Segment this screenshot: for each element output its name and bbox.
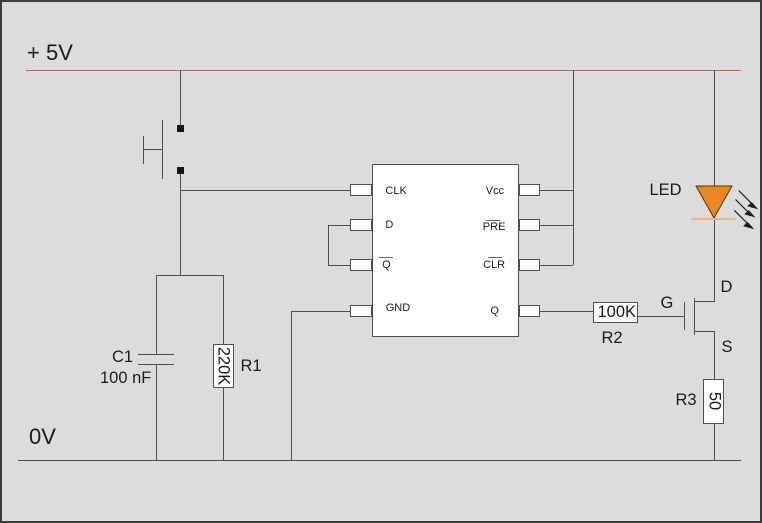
wire R3 to 0V xyxy=(714,424,715,461)
capacitor C1 xyxy=(0,0,1,1)
pin Q out xyxy=(519,305,541,317)
pin PRE xyxy=(519,219,541,231)
wire +5V rail through LED to drain xyxy=(714,70,715,302)
label LED xyxy=(650,182,682,199)
wire R1 to 0V xyxy=(223,388,224,460)
junction bar node xyxy=(156,275,224,276)
label S terminal xyxy=(722,339,733,356)
label 100 nF xyxy=(100,370,151,387)
LED D1 with light arrows xyxy=(640,170,762,240)
label R1 xyxy=(241,358,262,375)
pin Vcc xyxy=(519,184,541,196)
pin label D xyxy=(385,220,393,231)
wire D to Qbar feedback loop xyxy=(0,0,1,1)
pin label GND xyxy=(386,303,410,314)
pin CLR xyxy=(519,259,541,271)
wire R2 to gate xyxy=(638,316,684,317)
wire Q pin to R2 xyxy=(540,311,593,312)
pin label Vcc xyxy=(486,186,504,197)
pin label PRE xyxy=(0,0,1,1)
wire source to R3 xyxy=(714,331,715,379)
wire rail to pushbutton top contact xyxy=(180,70,181,126)
label 0V xyxy=(29,426,56,448)
pushbutton SW1 xyxy=(0,0,1,1)
wire pushbutton node to CLK pin xyxy=(180,190,350,191)
LED cathode bar xyxy=(691,218,736,220)
light arrow 2 xyxy=(736,200,756,218)
pin D xyxy=(350,219,372,231)
light arrow 1 xyxy=(739,191,759,210)
label +5V xyxy=(27,42,73,64)
wire pushbutton bottom contact down to junction bar xyxy=(180,174,181,275)
pin Qbar xyxy=(350,259,372,271)
pin GND xyxy=(350,305,372,317)
wire junction to R1 xyxy=(223,275,224,345)
ground rail 0V xyxy=(18,460,741,461)
light arrow 3 xyxy=(734,210,754,229)
resistor R3 xyxy=(0,0,1,1)
label G xyxy=(661,295,674,312)
resistor R1 xyxy=(0,0,1,1)
label R2 xyxy=(602,330,623,347)
wire Vcc PRE CLR to +5V rail xyxy=(0,0,1,1)
pin label CLK xyxy=(385,186,406,197)
IC U1 D flip-flop body xyxy=(372,164,519,337)
wire GND pin to 0V xyxy=(0,0,1,1)
wire C1 bottom plate to 0V xyxy=(156,364,157,460)
label C1 xyxy=(112,349,133,366)
LED triangle xyxy=(696,186,732,218)
resistor R2 xyxy=(0,0,1,1)
MOSFET Q1 xyxy=(0,0,1,1)
wire junction to C1 top plate xyxy=(156,275,157,355)
pin label Qbar xyxy=(0,0,1,1)
pin label Q out xyxy=(490,306,499,317)
power rail +5V xyxy=(26,70,741,71)
pin CLK xyxy=(350,184,372,196)
label R3 xyxy=(676,392,697,409)
pin label CLR xyxy=(0,0,1,1)
label D terminal xyxy=(721,279,733,296)
